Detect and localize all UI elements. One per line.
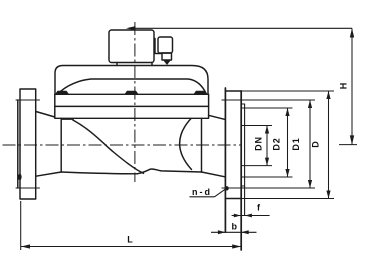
dimension line D2 — [287, 108, 289, 177]
right flange left face — [224, 88, 226, 232]
right hub taper bottom — [202, 172, 226, 177]
arrow D bottom — [326, 191, 330, 199]
H bottom tick — [339, 144, 357, 146]
slab mid line — [55, 105, 209, 107]
extension line D1 bottom — [222, 187, 316, 189]
raised face top — [241, 103, 244, 105]
arrow H top — [350, 28, 354, 37]
internal S-curve — [73, 120, 144, 173]
arrow D top — [326, 91, 330, 99]
coil base flange — [117, 63, 152, 66]
body left side — [60, 118, 62, 172]
dimension line D1 — [309, 100, 311, 188]
arrow L right — [232, 244, 241, 248]
top dimension line to H — [133, 27, 352, 29]
centerline horizontal — [3, 144, 242, 146]
body inner top line — [62, 118, 74, 120]
dimension line H — [351, 28, 353, 144]
centerline vertical — [134, 22, 136, 182]
seat arc — [180, 119, 192, 170]
connector tip arrow — [164, 61, 171, 66]
left flange raised face — [17, 100, 19, 188]
left flange top bolt tick — [16, 99, 40, 101]
dimension line L — [21, 246, 241, 248]
extension line D top — [241, 90, 334, 92]
pipe bottom line — [61, 172, 137, 174]
extension line D1 top — [222, 99, 316, 101]
L left extension — [20, 201, 22, 250]
dimension line b — [211, 231, 257, 233]
right hub taper top — [209, 115, 226, 119]
svg-text:L: L — [127, 235, 133, 245]
bonnet flange slab — [55, 94, 209, 118]
extension line D2 top — [241, 107, 292, 109]
left hub taper top — [36, 112, 55, 118]
left flange bolt hole dot — [18, 174, 22, 180]
svg-text:D2: D2 — [271, 137, 281, 150]
bonnet inner dome — [58, 79, 207, 94]
solenoid coil — [109, 30, 154, 63]
left flange bottom bolt tick — [16, 187, 40, 189]
right flange disc top — [225, 90, 241, 92]
dimension line f — [232, 215, 270, 217]
arrow top-left on H line — [126, 26, 136, 30]
arrow H bottom — [350, 135, 354, 144]
bolt center — [125, 91, 139, 95]
arrow f right — [245, 214, 252, 218]
right flange disc bottom — [225, 198, 241, 200]
body bottom bump — [137, 169, 202, 174]
svg-text:f: f — [257, 203, 261, 213]
arrow D1 bottom — [308, 180, 312, 188]
raised face bottom — [241, 185, 244, 187]
svg-text:D: D — [310, 141, 320, 148]
arrow DN bottom — [265, 158, 269, 166]
arrow DN top — [265, 126, 269, 134]
bolt left — [55, 91, 69, 95]
arrow b right — [241, 230, 249, 234]
extension line D bottom — [225, 198, 334, 200]
left flange disc — [20, 89, 36, 199]
connector lower piece — [162, 53, 172, 60]
extension line DN bottom — [241, 165, 272, 167]
svg-text:H: H — [338, 83, 348, 90]
extension line DN top — [241, 125, 272, 127]
arrow D1 top — [308, 100, 312, 108]
right flange right face — [240, 91, 242, 250]
right flange raised face edge — [244, 104, 246, 216]
svg-text:D1: D1 — [291, 137, 301, 150]
arrow f left — [234, 214, 241, 218]
n-d underline — [190, 196, 215, 198]
body right side — [201, 118, 203, 172]
arrow D2 top — [285, 108, 289, 116]
extension line D2 bottom — [241, 176, 292, 178]
dimension line D — [328, 91, 330, 199]
svg-text:n-d: n-d — [192, 187, 212, 197]
n-d leader — [215, 189, 226, 197]
arrow D2 bottom — [285, 169, 289, 177]
right flange bolt hole dot — [225, 186, 229, 190]
svg-text:DN: DN — [253, 136, 263, 151]
bolt right — [194, 91, 208, 95]
connector bracket — [155, 39, 162, 54]
arrow b left — [218, 230, 226, 234]
bonnet outer outline — [55, 66, 208, 95]
svg-text:b: b — [232, 222, 238, 232]
arrow L left — [21, 244, 30, 248]
dimension line DN — [266, 126, 268, 166]
connector box — [158, 37, 173, 53]
left hub taper bottom — [36, 172, 61, 176]
